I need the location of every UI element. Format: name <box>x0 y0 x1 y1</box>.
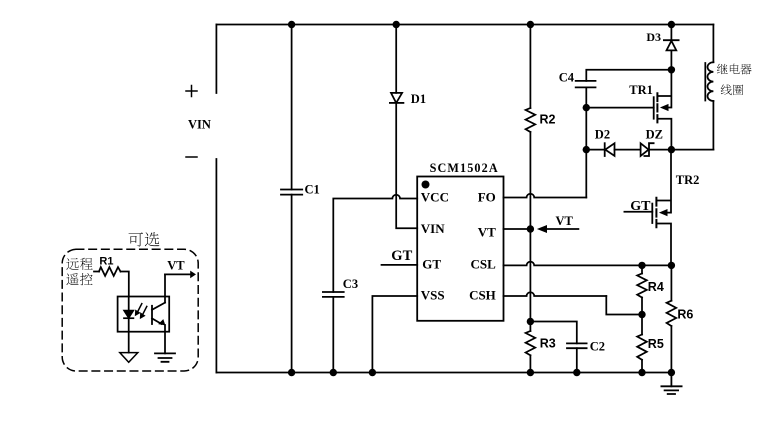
wire gate node down to FO node <box>585 108 587 150</box>
wire D2 to DZ <box>615 149 641 151</box>
svg-text:VIN: VIN <box>421 221 445 236</box>
node C1 top junction <box>288 21 295 28</box>
node R3 top junction <box>527 318 534 325</box>
svg-text:VT: VT <box>478 225 496 240</box>
svg-text:D1: D1 <box>411 92 426 106</box>
wire node to coil return <box>671 149 713 151</box>
wire bottom rail <box>216 372 671 374</box>
svg-text:SCM1502A: SCM1502A <box>430 161 499 175</box>
optocoupler light arrows <box>135 304 147 320</box>
svg-text:C3: C3 <box>343 277 358 291</box>
optocoupler U2 box <box>118 297 170 332</box>
svg-text:D3: D3 <box>646 30 661 44</box>
resistor R6 <box>667 265 694 372</box>
wire FO node to D2 <box>586 149 604 151</box>
svg-text:TR1: TR1 <box>629 83 653 97</box>
net arrow VT <box>537 214 579 233</box>
node R4/R5 junction <box>638 311 645 318</box>
svg-text:R2: R2 <box>540 113 556 127</box>
wire R3 top to C2 <box>530 322 576 344</box>
capacitor C4 <box>559 71 596 108</box>
node R3 bottom junction <box>527 369 534 376</box>
resistor R3 <box>526 322 556 373</box>
dashed box optional section <box>62 249 198 371</box>
wire FO to D2 node <box>504 194 587 198</box>
svg-text:CSH: CSH <box>469 288 496 303</box>
node R6 top junction <box>668 262 675 269</box>
node ground rail junction <box>668 369 675 376</box>
svg-text:GT: GT <box>391 248 412 264</box>
wire VSS to ground rail <box>372 296 417 373</box>
source VIN - label <box>186 156 197 158</box>
svg-text:C2: C2 <box>590 339 605 353</box>
svg-text:FO: FO <box>478 190 496 205</box>
optocoupler LED <box>124 297 133 353</box>
pin 1 marker <box>422 181 430 189</box>
ground (LED side, open triangle) <box>120 353 138 363</box>
net arrow VT (optional box) <box>165 259 196 279</box>
wire DZ to TR node <box>649 149 672 151</box>
source VIN + label <box>186 86 197 97</box>
svg-text:VIN: VIN <box>188 118 211 132</box>
node C4/gate node <box>583 104 590 111</box>
inductor relay coil <box>705 25 713 150</box>
value label 继电器 <box>717 64 752 75</box>
op-amp U1 SCM1502A body <box>417 177 503 321</box>
wire CSL to TR2 source <box>504 262 672 266</box>
diode D3 <box>646 25 678 70</box>
svg-text:VCC: VCC <box>421 190 449 205</box>
value label 线圈 <box>721 84 743 95</box>
diode D2 <box>595 127 615 156</box>
capacitor C3 <box>323 277 358 372</box>
svg-text:TR2: TR2 <box>676 173 700 187</box>
transistor TR2 <box>652 150 699 266</box>
net GT lead at TR2 <box>624 211 652 213</box>
ground (emitter side) <box>155 353 175 361</box>
label 远程遥控 <box>66 258 92 286</box>
ground (main) <box>661 373 681 395</box>
node node VT <box>527 225 534 232</box>
wire C4 top <box>586 70 671 81</box>
node D1 top junction <box>393 21 400 28</box>
transistor TR1 <box>586 70 671 150</box>
svg-text:VT: VT <box>556 214 574 228</box>
wire VIN positive lead <box>215 25 217 94</box>
svg-text:GT: GT <box>422 257 441 272</box>
node FO/D2 node <box>583 146 590 153</box>
svg-text:R6: R6 <box>677 307 693 321</box>
wire VCC to C3 (hop over D1) <box>333 195 417 292</box>
wire CSH run <box>504 292 607 296</box>
net GT stub at IC <box>382 264 418 266</box>
label 可选 <box>129 232 160 246</box>
node D3/C4/TR1 node <box>668 66 675 73</box>
node VSS ground junction <box>369 369 376 376</box>
node TR1 source/TR2 drain node <box>668 146 675 153</box>
wire VIN negative lead <box>215 159 217 373</box>
resistor R5 <box>637 315 664 373</box>
capacitor C1 <box>281 25 320 373</box>
node R4 top junction <box>638 262 645 269</box>
svg-text:D2: D2 <box>595 127 610 141</box>
svg-text:VT: VT <box>167 259 185 273</box>
node R2 top junction <box>527 21 534 28</box>
svg-text:C1: C1 <box>305 183 320 197</box>
capacitor C2 <box>567 339 605 372</box>
svg-text:R3: R3 <box>540 337 556 351</box>
svg-text:R4: R4 <box>648 280 664 294</box>
wire VT node down <box>529 229 531 322</box>
wire VT pin to node <box>504 228 531 230</box>
svg-text:C4: C4 <box>559 71 575 85</box>
svg-text:R1: R1 <box>99 255 113 267</box>
diode D1 <box>390 25 426 229</box>
wire FO riser <box>585 150 587 198</box>
svg-text:R5: R5 <box>648 337 664 351</box>
resistor R1 <box>94 255 129 296</box>
node R5 bottom junction <box>638 369 645 376</box>
svg-text:VSS: VSS <box>421 288 445 303</box>
node C2 bottom junction <box>573 369 580 376</box>
node D3 top junction <box>668 21 675 28</box>
svg-text:DZ: DZ <box>646 127 663 141</box>
resistor R4 <box>637 265 664 314</box>
node C1 bottom junction <box>288 369 295 376</box>
wire CSH bend to R4/R5 <box>606 296 642 315</box>
wire top rail <box>216 24 713 26</box>
zener diode DZ <box>641 127 663 156</box>
resistor R2 <box>526 25 556 230</box>
svg-text:CSL: CSL <box>471 257 497 272</box>
svg-text:GT: GT <box>630 199 651 214</box>
node C3 bottom junction <box>330 369 337 376</box>
optocoupler phototransistor <box>152 274 165 353</box>
